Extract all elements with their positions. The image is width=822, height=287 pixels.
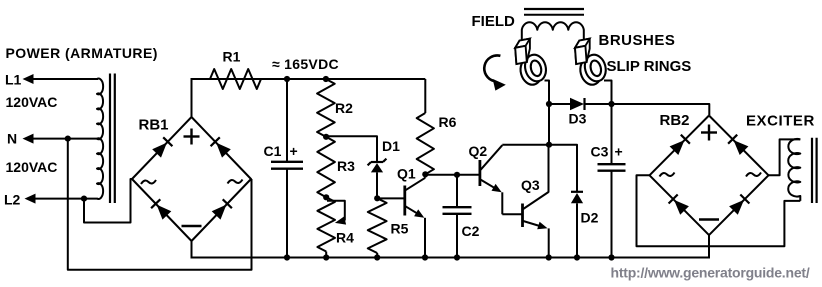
diode RB2 bottom-right <box>729 195 749 215</box>
svg-text:EXCITER: EXCITER <box>746 113 815 130</box>
svg-text:http://www.generatorguide.net/: http://www.generatorguide.net/ <box>611 265 810 281</box>
label C1 <box>264 143 282 159</box>
wire Q1 base lead <box>377 197 404 199</box>
node field-rail left junction <box>546 101 552 107</box>
node C2/bottom-rail junction <box>454 254 460 260</box>
slip ring left <box>518 52 549 87</box>
svg-text:C2: C2 <box>462 223 480 239</box>
exciter winding <box>788 139 800 201</box>
node field-rail right junction <box>608 101 614 107</box>
diode RB2 bottom-left <box>669 195 689 215</box>
wire N drop to lower return <box>68 139 252 270</box>
RB2 minus mark <box>699 218 719 220</box>
node L2-tap junction <box>81 196 87 202</box>
rotation arrow <box>484 55 506 90</box>
svg-text:120VAC: 120VAC <box>6 94 58 110</box>
wire left slip ring to field rail <box>545 81 550 105</box>
wire RB2 left corner to exciter return <box>637 175 801 246</box>
node R6/Q1-collector junction <box>422 171 428 177</box>
diode RB2 top-right <box>728 135 748 155</box>
label C3 <box>591 144 609 160</box>
diode RB1 bottom-right <box>212 199 232 219</box>
svg-text:D3: D3 <box>569 111 587 127</box>
svg-text:N: N <box>7 131 17 147</box>
svg-text:L1: L1 <box>5 72 22 88</box>
svg-text:R1: R1 <box>223 49 241 65</box>
label R5 <box>391 221 409 237</box>
wire C1 top lead <box>286 79 288 161</box>
transformer T1 primary winding <box>97 79 103 199</box>
terminal arrow L1 <box>23 74 34 84</box>
label R3 <box>337 158 355 174</box>
svg-text:C3: C3 <box>591 144 609 160</box>
slip ring right <box>577 52 608 87</box>
svg-text:BRUSHES: BRUSHES <box>599 32 676 49</box>
svg-text:R4: R4 <box>336 230 354 246</box>
resistor R1 <box>210 69 261 89</box>
resistor R3 <box>317 137 335 198</box>
wire bottom rail (DC minus) <box>192 257 711 259</box>
svg-text:L2: L2 <box>4 192 21 208</box>
title label POWER (ARMATURE) <box>6 45 158 61</box>
svg-text:SLIP RINGS: SLIP RINGS <box>607 58 692 75</box>
node C3/bottom-rail junction <box>608 254 614 260</box>
svg-text:R5: R5 <box>391 221 409 237</box>
transistor Q2 <box>480 145 522 214</box>
diode RB1 top-left <box>152 137 172 157</box>
diode D3 <box>570 98 585 111</box>
capacitor C2 <box>443 207 472 214</box>
wire L1 lead <box>33 78 98 80</box>
svg-text:POWER (ARMATURE): POWER (ARMATURE) <box>6 45 158 61</box>
terminal label L2 <box>4 192 21 208</box>
node R5/bottom-rail junction <box>374 254 380 260</box>
svg-text:Q3: Q3 <box>521 177 540 193</box>
svg-text:+: + <box>615 144 623 160</box>
diode RB1 top-right <box>211 137 231 157</box>
label Q2 <box>469 143 488 159</box>
terminal label L1 <box>5 72 22 88</box>
capacitor C3 <box>598 164 626 171</box>
node R4/bottom-rail junction <box>323 254 329 260</box>
C1 polarity + <box>290 143 298 159</box>
label RB1 <box>139 117 169 134</box>
svg-text:≈ 165VDC: ≈ 165VDC <box>272 56 339 72</box>
wire field rail left segment <box>549 103 570 105</box>
svg-text:+: + <box>290 143 298 159</box>
terminal label N <box>7 131 17 147</box>
node Q1-emitter/bottom-rail junction <box>422 254 428 260</box>
label R2 <box>335 100 353 116</box>
brush left <box>515 39 530 64</box>
node Q3-emitter/bottom-rail junction <box>546 254 552 260</box>
wire N lead <box>33 138 99 140</box>
capacitor C1 <box>271 162 303 169</box>
node C2 tap junction <box>454 172 460 178</box>
label R1 <box>223 49 241 65</box>
RB2 ac mark right <box>746 173 761 177</box>
resistor R5 <box>368 198 387 257</box>
svg-text:FIELD: FIELD <box>472 13 515 30</box>
wire C3 bottom lead <box>611 171 613 258</box>
label Q1 <box>397 166 416 182</box>
field winding <box>522 22 584 45</box>
label SLIP RINGS <box>607 58 692 75</box>
wire RB2 minus to bottom rail <box>708 235 710 257</box>
value label 120VAC (upper) <box>6 94 58 110</box>
svg-text:RB2: RB2 <box>660 112 690 129</box>
exciter core <box>812 138 817 203</box>
svg-text:D1: D1 <box>382 138 400 154</box>
svg-text:Q1: Q1 <box>397 166 416 182</box>
label D2 <box>581 210 599 226</box>
node N-tap junction <box>65 136 71 142</box>
wire C2 bottom lead <box>456 214 458 258</box>
RB1 ac mark right <box>228 180 243 184</box>
wire junction to D1 <box>326 136 377 162</box>
diode RB2 top-left <box>670 135 690 155</box>
wire RB2 right corner to exciter top <box>769 139 801 175</box>
svg-text:Q2: Q2 <box>469 143 488 159</box>
wire C2 top lead <box>456 175 458 207</box>
label BRUSHES <box>599 32 676 49</box>
brush right <box>575 39 590 64</box>
transistor Q1 <box>405 174 425 257</box>
label D3 <box>569 111 587 127</box>
transformer T1 core <box>110 74 115 204</box>
svg-text:RB1: RB1 <box>139 117 169 134</box>
diode D2 <box>571 192 583 258</box>
svg-text:R6: R6 <box>439 114 457 130</box>
resistor R4 <box>317 197 335 257</box>
label D1 <box>382 138 400 154</box>
watermark url <box>611 265 810 281</box>
potentiometer R4 wiper <box>327 201 346 225</box>
terminal arrow L2 <box>25 194 36 204</box>
field core lines <box>524 9 584 15</box>
wire Q2 collector <box>502 144 549 146</box>
RB2 plus mark <box>701 125 717 141</box>
label FIELD <box>472 13 515 30</box>
wire C3 top lead <box>611 104 613 164</box>
label C2 <box>462 223 480 239</box>
transistor Q3 <box>523 145 549 258</box>
node Q2/Q3 collector junction <box>546 142 552 148</box>
wire collector node to D2 <box>549 145 577 192</box>
wire field rail right segment <box>585 104 710 115</box>
wire top rail (+165VDC) <box>191 78 426 80</box>
node D1/R5/Q1-base junction <box>374 195 380 201</box>
RB1 ac mark left <box>141 180 156 184</box>
svg-text:D2: D2 <box>581 210 599 226</box>
wire collector node to field rail <box>548 104 550 145</box>
label R6 <box>439 114 457 130</box>
wire right slip ring to field rail <box>604 81 612 105</box>
wire Q1 collector to Q2 base <box>425 174 479 176</box>
bridge rectifier RB2 diamond <box>650 116 769 236</box>
node R2/R3/D1 junction <box>323 134 329 140</box>
RB1 minus mark <box>182 225 202 227</box>
label EXCITER <box>746 113 815 130</box>
resistor R2 <box>317 79 335 137</box>
node R1/C1 junction <box>284 76 290 82</box>
wire RB1 minus to bottom rail <box>191 241 193 259</box>
RB2 ac mark left <box>660 173 675 177</box>
wire L2 tap to RB1 left corner <box>84 179 132 223</box>
node D2/bottom-rail junction <box>574 254 580 260</box>
node C1/bottom-rail junction <box>284 254 290 260</box>
value label 165VDC <box>272 56 339 72</box>
label RB2 <box>660 112 690 129</box>
resistor R6 <box>417 79 434 174</box>
bridge rectifier RB1 diamond <box>132 117 251 241</box>
node R3/R4 junction <box>323 194 329 200</box>
wire C1 bottom lead <box>286 169 288 258</box>
label Q3 <box>521 177 540 193</box>
terminal arrow N <box>23 134 34 144</box>
svg-text:R2: R2 <box>335 100 353 116</box>
diode RB1 bottom-left <box>151 199 171 219</box>
svg-text:120VAC: 120VAC <box>6 159 58 175</box>
wire RB1 plus to top rail <box>191 79 193 117</box>
svg-text:R3: R3 <box>337 158 355 174</box>
node rail/R2 junction <box>323 76 329 82</box>
svg-text:C1: C1 <box>264 143 282 159</box>
zener diode D1 <box>368 159 387 199</box>
label R4 <box>336 230 354 246</box>
C3 polarity + <box>615 144 623 160</box>
RB1 plus mark <box>184 129 200 145</box>
value label 120VAC (lower) <box>6 159 58 175</box>
wire L2 lead <box>33 198 98 200</box>
